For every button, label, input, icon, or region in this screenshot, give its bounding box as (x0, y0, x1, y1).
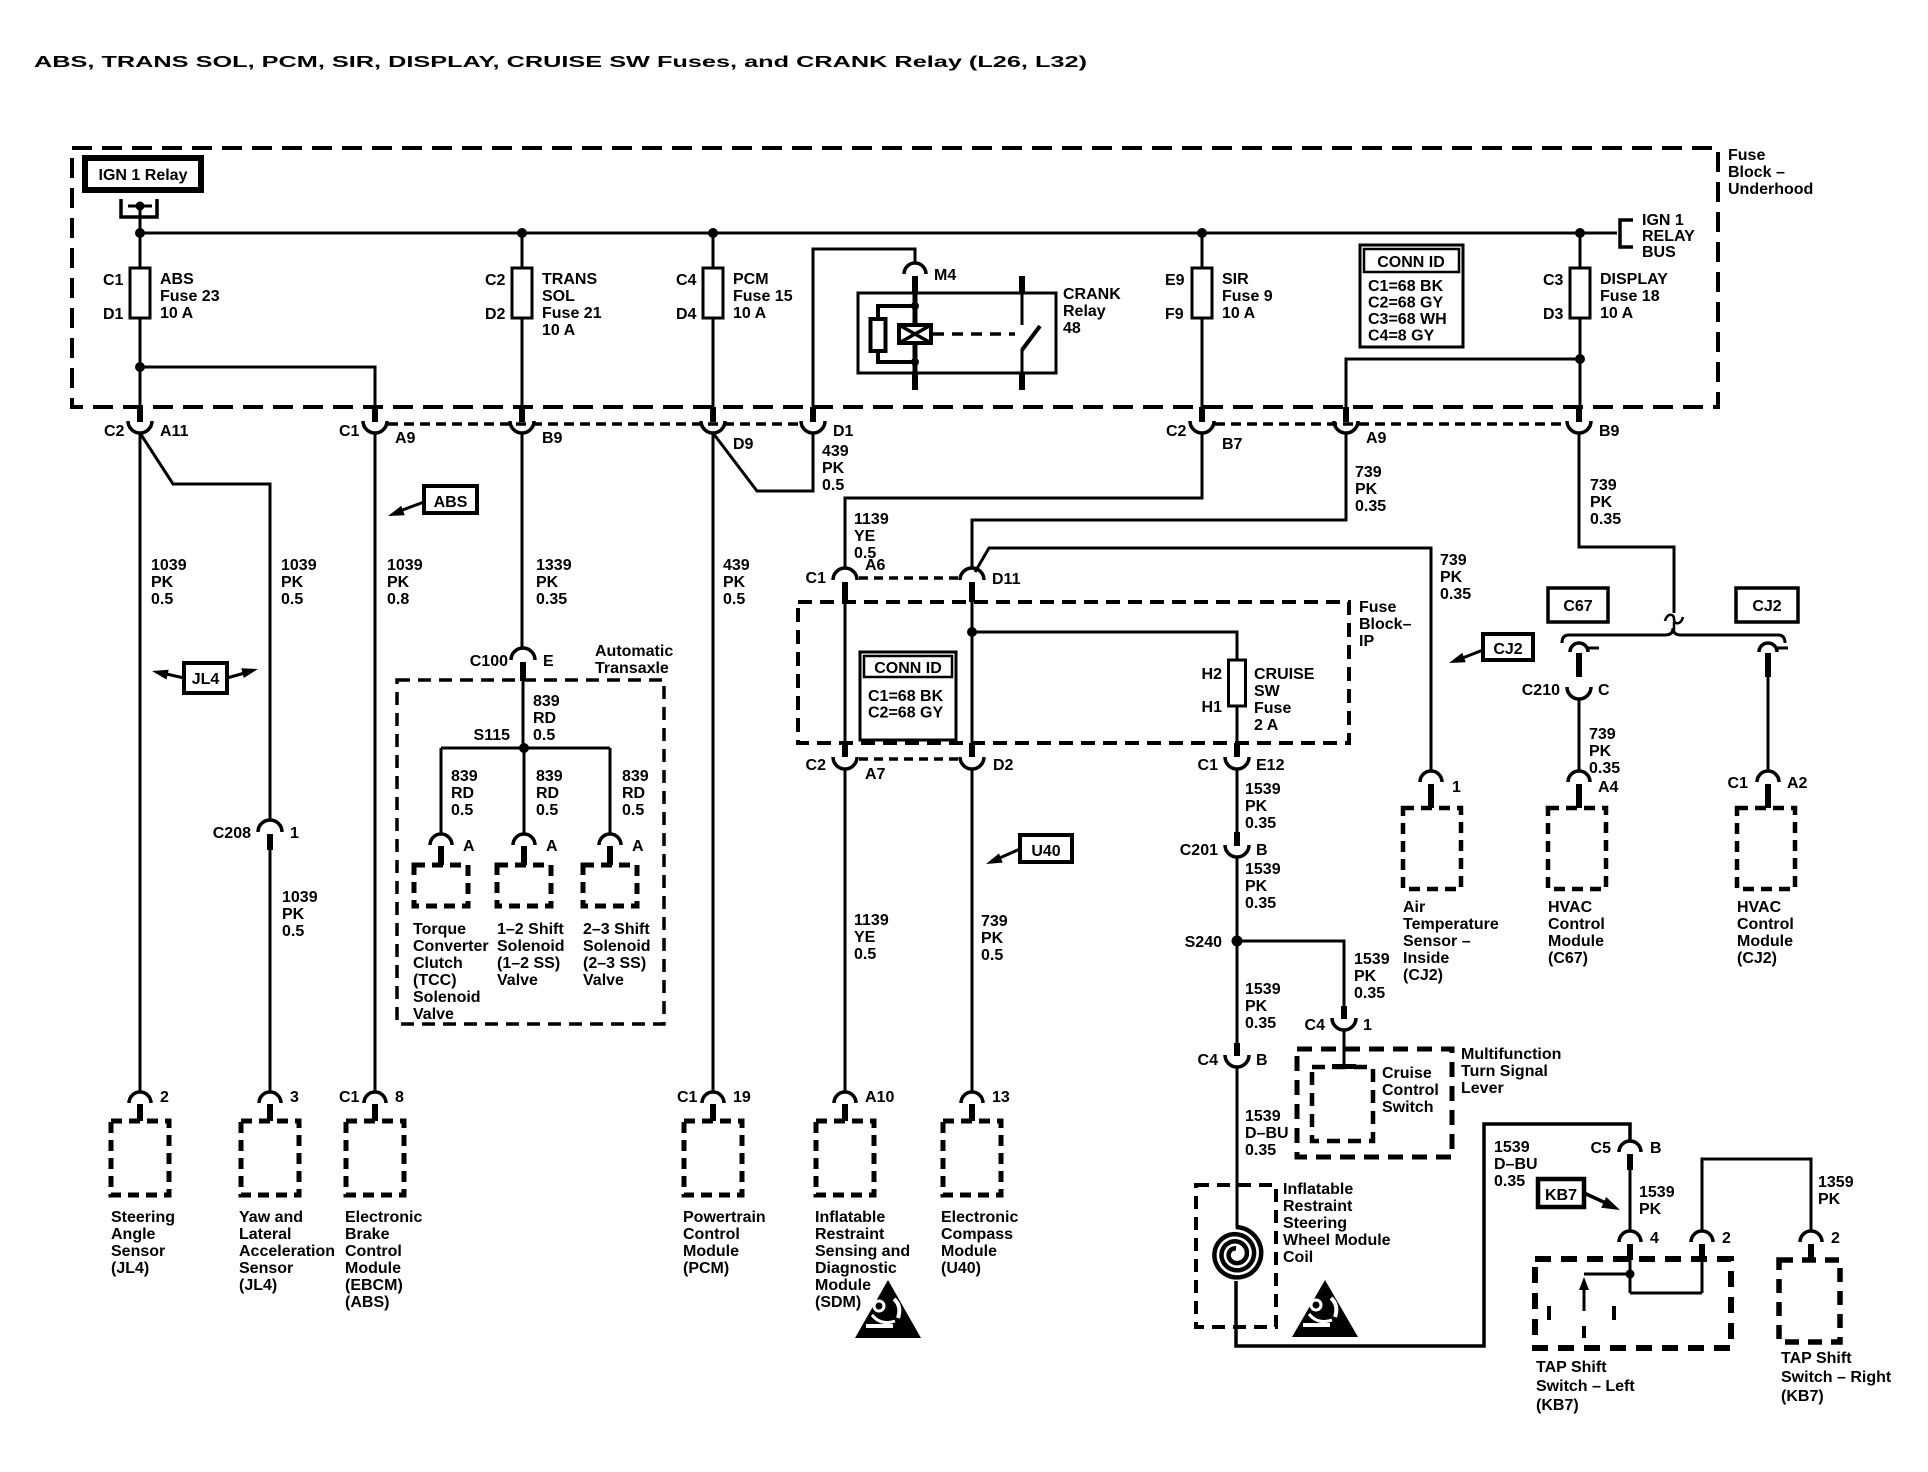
wire A11 branch to C208 (140, 433, 270, 820)
svg-text:Inflatable: Inflatable (815, 1209, 885, 1226)
wire A7 to SDM 1139 YE (844, 769, 847, 1092)
svg-text:(JL4): (JL4) (111, 1260, 149, 1277)
svg-text:S240: S240 (1185, 934, 1222, 951)
connector C4/B inline (1234, 1043, 1240, 1056)
svg-text:0.5: 0.5 (536, 802, 558, 819)
wire PCM fuse output (712, 318, 715, 407)
svg-text:Module: Module (1737, 933, 1793, 950)
svg-text:F9: F9 (1165, 306, 1184, 323)
svg-text:RD: RD (536, 785, 559, 802)
wire bus to fuse PCM (712, 233, 715, 268)
svg-text:D2: D2 (993, 757, 1014, 774)
svg-text:1539: 1539 (1639, 1184, 1675, 1201)
svg-text:C: C (1598, 682, 1610, 699)
connector 3 yaw sensor (269, 0, 272, 2)
bus IGN 1 RELAY BUS (140, 232, 1617, 235)
svg-text:0.35: 0.35 (1245, 815, 1276, 832)
wire S240 branch to cruise control switch (1237, 941, 1344, 1006)
svg-text:(JL4): (JL4) (239, 1277, 277, 1294)
svg-text:A9: A9 (1366, 430, 1387, 447)
relay contact (1019, 276, 1025, 293)
label ABS with arrow (424, 486, 477, 513)
svg-text:Module: Module (683, 1243, 739, 1260)
svg-text:B: B (1650, 1140, 1662, 1157)
svg-text:Control: Control (1382, 1082, 1439, 1099)
connector A of 1&#8211;2 Shift (513, 834, 535, 845)
svg-text:PK: PK (1818, 1191, 1841, 1208)
svg-text:D–BU: D–BU (1494, 1156, 1538, 1173)
svg-text:0.35: 0.35 (1355, 498, 1386, 515)
svg-text:Solenoid: Solenoid (583, 938, 651, 955)
wire A9 to EBCM 1039 PK 0.8 (374, 433, 377, 1092)
coil clockspring spiral (1214, 1227, 1261, 1277)
svg-text:D2: D2 (485, 306, 506, 323)
wire into cruise switch (1343, 1030, 1346, 1064)
svg-text:HVAC: HVAC (1737, 899, 1782, 916)
svg-text:2: 2 (160, 1089, 169, 1106)
svg-text:A11: A11 (160, 423, 189, 440)
svg-text:Air: Air (1403, 899, 1425, 916)
svg-text:YE: YE (854, 528, 876, 545)
connector 4 TAP shift switch left (1619, 1231, 1641, 1242)
svg-text:A2: A2 (1787, 775, 1808, 792)
component Yaw and Lateral Acceleration Sensor (JL4) (241, 1121, 299, 1195)
svg-text:Yaw and: Yaw and (239, 1209, 303, 1226)
connector C100/E (511, 648, 535, 660)
svg-text:(2–3 SS): (2–3 SS) (583, 955, 646, 972)
svg-text:CONN ID: CONN ID (874, 660, 942, 677)
relay coil winding box (913, 291, 918, 325)
bus junction dot at ABS fuse (135, 228, 145, 238)
svg-text:PK: PK (1245, 998, 1268, 1015)
wire B9 right to C67 CJ2 brace (1579, 433, 1674, 613)
svg-text:PK: PK (1440, 569, 1463, 586)
warning triangle SDM (855, 1280, 921, 1338)
svg-text:Diagnostic: Diagnostic (815, 1260, 897, 1277)
connector 2 steering angle sensor (139, 0, 142, 2)
bus junction dot at PCM fuse (708, 228, 718, 238)
svg-text:C1: C1 (339, 1089, 360, 1106)
svg-text:C2: C2 (104, 423, 125, 440)
connector B9 left (519, 407, 525, 422)
svg-text:Switch: Switch (1382, 1099, 1434, 1116)
svg-text:C3=68 WH: C3=68 WH (1368, 311, 1447, 328)
component Inflatable Restraint Steering Wheel Module Coil enclosure (1196, 1185, 1276, 1327)
svg-text:B9: B9 (542, 430, 563, 447)
wire D11 branch to air temperature sensor 739 PK (975, 548, 1431, 771)
wire C5 to TAP left pin 4 1539 PK (1629, 1170, 1632, 1231)
svg-text:0.35: 0.35 (1589, 760, 1620, 777)
IP connector row dashed bottom (859, 757, 958, 761)
svg-text:Sensing and: Sensing and (815, 1243, 910, 1260)
svg-text:2: 2 (1722, 1230, 1731, 1247)
svg-text:0.5: 0.5 (281, 591, 303, 608)
svg-text:Converter: Converter (413, 938, 489, 955)
svg-text:0.5: 0.5 (622, 802, 644, 819)
svg-text:Lever: Lever (1461, 1080, 1504, 1097)
svg-text:13: 13 (992, 1089, 1010, 1106)
svg-text:C1: C1 (677, 1089, 698, 1106)
TAP left internal switch wiring (1629, 1260, 1632, 1293)
svg-text:Fuse 15: Fuse 15 (733, 288, 793, 305)
svg-text:0.5: 0.5 (451, 802, 473, 819)
svg-text:C1: C1 (339, 423, 360, 440)
svg-text:10 A: 10 A (733, 305, 767, 322)
svg-text:739: 739 (1440, 552, 1467, 569)
component Electronic Brake Control Module (EBCM) (ABS) (346, 1121, 404, 1195)
svg-text:Valve: Valve (497, 972, 538, 989)
svg-text:PK: PK (536, 574, 559, 591)
svg-text:D1: D1 (833, 423, 854, 440)
svg-text:1539: 1539 (1354, 951, 1390, 968)
connector pin under brace right (1759, 643, 1777, 652)
svg-text:(CJ2): (CJ2) (1403, 967, 1443, 984)
svg-text:Underhood: Underhood (1728, 181, 1813, 198)
wire C100 to S115 839 RD (522, 681, 525, 748)
connector C208/1 inline (258, 820, 282, 832)
wire B9 to C100 1339 PK (521, 433, 524, 649)
svg-text:PK: PK (282, 906, 305, 923)
svg-text:KB7: KB7 (1545, 1187, 1577, 1204)
bus junction dot at TRANS SOL fuse (517, 228, 527, 238)
svg-text:1: 1 (1452, 779, 1461, 796)
svg-text:SIR: SIR (1222, 271, 1249, 288)
wire C208 to yaw sensor (269, 850, 272, 1092)
connector C1/A2 HVAC CJ2 (1757, 771, 1779, 782)
wire branch DISPLAY to A9 right (1346, 359, 1580, 407)
svg-text:B7: B7 (1222, 436, 1243, 453)
svg-text:Switch – Left: Switch – Left (1536, 1378, 1635, 1395)
svg-text:Fuse: Fuse (1254, 700, 1291, 717)
svg-text:C2: C2 (485, 272, 506, 289)
svg-text:E12: E12 (1256, 757, 1285, 774)
component Inflatable Restraint SDM (816, 1121, 874, 1195)
svg-text:A10: A10 (865, 1089, 894, 1106)
relay CRANK Relay 48 box (858, 293, 1056, 373)
connector B9 right (1576, 407, 1582, 422)
svg-text:Control: Control (683, 1226, 740, 1243)
bus junction dot at SIR fuse (1197, 228, 1207, 238)
wire IGN1 relay to bus (139, 206, 142, 233)
svg-text:Transaxle: Transaxle (595, 660, 669, 677)
svg-text:ABS: ABS (434, 494, 468, 511)
svg-text:(ABS): (ABS) (345, 1294, 389, 1311)
connector C5/B inline (1619, 1141, 1641, 1152)
svg-text:0.35: 0.35 (1245, 895, 1276, 912)
svg-text:439: 439 (822, 443, 849, 460)
fuse ABS Fuse 23 10 A (130, 268, 150, 318)
svg-text:0.5: 0.5 (981, 947, 1003, 964)
svg-text:D9: D9 (733, 436, 754, 453)
svg-text:1039: 1039 (151, 557, 187, 574)
svg-text:PK: PK (151, 574, 174, 591)
svg-text:C1: C1 (806, 570, 827, 587)
svg-text:2: 2 (1831, 1230, 1840, 1247)
svg-text:C2=68 GY: C2=68 GY (868, 705, 943, 722)
wire D9 to D1 jumper 439 PK (713, 433, 813, 491)
svg-text:Acceleration: Acceleration (239, 1243, 335, 1260)
svg-text:1: 1 (290, 825, 299, 842)
svg-text:0.5: 0.5 (822, 477, 844, 494)
component Electronic Compass Module (U40) (943, 1121, 1001, 1195)
wire SIR fuse output (1201, 318, 1204, 407)
svg-text:Angle: Angle (111, 1226, 156, 1243)
svg-text:Block–: Block– (1359, 616, 1412, 633)
label box CJ2 right (1736, 588, 1798, 622)
svg-text:SOL: SOL (542, 288, 575, 305)
svg-text:739: 739 (1355, 464, 1382, 481)
svg-text:PK: PK (1245, 878, 1268, 895)
svg-text:Module: Module (815, 1277, 871, 1294)
wire S240 to C4/B 1539 PK (1236, 941, 1239, 1043)
svg-text:C67: C67 (1563, 598, 1592, 615)
fuse PCM Fuse 15 10 A (703, 268, 723, 318)
svg-text:BUS: BUS (1642, 244, 1676, 261)
component 1&#8211;2 Shift Solenoid (1&#8211;2 SS) Valve (497, 865, 551, 906)
IGN 1 Relay label box (85, 158, 201, 190)
svg-text:Control: Control (1737, 916, 1794, 933)
component 2&#8211;3 Shift Solenoid (2&#8211;3 SS) Valve (583, 865, 637, 906)
relay coil junction bottom (911, 358, 919, 366)
svg-text:0.35: 0.35 (536, 591, 567, 608)
svg-text:48: 48 (1063, 320, 1081, 337)
svg-text:A7: A7 (865, 766, 886, 783)
svg-text:1039: 1039 (282, 889, 318, 906)
svg-text:10 A: 10 A (542, 322, 576, 339)
connector D9 (710, 407, 716, 422)
svg-text:Relay: Relay (1063, 303, 1106, 320)
fuse CRUISE SW Fuse 2 A (1229, 660, 1246, 706)
svg-text:Sensor: Sensor (239, 1260, 293, 1277)
connector A4 HVAC C67 (1568, 771, 1590, 782)
wire bus to fuse ABS (139, 233, 142, 268)
svg-text:Fuse 9: Fuse 9 (1222, 288, 1273, 305)
svg-text:Control: Control (1548, 916, 1605, 933)
automatic transaxle dashed enclosure (397, 680, 664, 1024)
svg-text:C208: C208 (213, 825, 251, 842)
svg-text:Switch – Right: Switch – Right (1781, 1369, 1892, 1386)
fuse SIR Fuse 9 10 A (1192, 268, 1212, 318)
svg-text:Automatic: Automatic (595, 643, 673, 660)
svg-text:(C67): (C67) (1548, 950, 1588, 967)
label U40 with arrow (1020, 835, 1072, 862)
connector D2 (969, 743, 975, 757)
connector brace C67 CJ2 split (1562, 628, 1785, 643)
svg-text:(TCC): (TCC) (413, 972, 457, 989)
svg-text:PCM: PCM (733, 271, 769, 288)
svg-text:(U40): (U40) (941, 1260, 981, 1277)
svg-text:C4: C4 (1305, 1017, 1326, 1034)
junction dot D11 branch to cruise fuse (967, 627, 977, 637)
svg-text:RD: RD (622, 785, 645, 802)
svg-text:C1=68 BK: C1=68 BK (868, 688, 944, 705)
fuse block underhood dashed enclosure (72, 148, 1718, 407)
connector A of 2&#8211;3 Shift (599, 834, 621, 845)
label JL4 with arrows (184, 663, 227, 693)
svg-text:Block –: Block – (1728, 164, 1785, 181)
wire A6 to A7 inside IP (844, 602, 847, 743)
wire TAP left pin 2 to TAP right pin 2 1359 PK (1702, 1159, 1811, 1230)
svg-text:RD: RD (533, 710, 556, 727)
connector 1 air temperature sensor (1420, 771, 1442, 782)
svg-text:Solenoid: Solenoid (497, 938, 565, 955)
connector C1/8 EBCM (374, 0, 377, 2)
wire C201 to S240 (1236, 857, 1239, 941)
relay coil junction top (911, 302, 919, 310)
IP connector row dashed top (859, 576, 958, 580)
connector C2/B7 (1199, 407, 1205, 422)
wire branch to A9 (140, 367, 375, 407)
svg-text:4: 4 (1650, 1230, 1659, 1247)
svg-text:Steering: Steering (1283, 1215, 1347, 1232)
svg-text:TAP Shift: TAP Shift (1536, 1359, 1607, 1376)
svg-text:HVAC: HVAC (1548, 899, 1593, 916)
svg-text:839: 839 (451, 768, 478, 785)
svg-text:1139: 1139 (854, 511, 889, 528)
wire coil to C5 1539 D-BU (1236, 1124, 1630, 1346)
svg-text:1539: 1539 (1245, 1108, 1281, 1125)
svg-text:H1: H1 (1202, 699, 1223, 716)
svg-text:PK: PK (281, 574, 304, 591)
svg-text:TAP Shift: TAP Shift (1781, 1350, 1852, 1367)
warning triangle coil (1292, 1280, 1358, 1337)
svg-text:Electronic: Electronic (941, 1209, 1018, 1226)
svg-text:RELAY: RELAY (1642, 228, 1695, 245)
svg-text:Coil: Coil (1283, 1249, 1313, 1266)
wire DISPLAY fuse output (1579, 318, 1582, 407)
svg-text:19: 19 (733, 1089, 751, 1106)
connector 13 compass (971, 0, 974, 2)
svg-text:2–3 Shift: 2–3 Shift (583, 921, 650, 938)
connector M4 (904, 263, 926, 274)
svg-text:Cruise: Cruise (1382, 1065, 1432, 1082)
svg-text:Fuse: Fuse (1359, 599, 1396, 616)
wire TRANS SOL fuse output (521, 318, 524, 407)
connector A of Torque (430, 834, 452, 845)
svg-text:IGN 1 Relay: IGN 1 Relay (99, 167, 188, 184)
wire M4 to D1 (813, 249, 915, 407)
svg-text:PK: PK (387, 574, 410, 591)
wire to CRUISE SW fuse (972, 632, 1237, 660)
svg-text:Restraint: Restraint (1283, 1198, 1353, 1215)
svg-text:PK: PK (1590, 494, 1613, 511)
svg-text:0.35: 0.35 (1354, 985, 1385, 1002)
label KB7 with arrow (1538, 1179, 1584, 1207)
component Multifunction Turn Signal Lever enclosure (1297, 1049, 1452, 1157)
svg-text:CONN ID: CONN ID (1377, 254, 1445, 271)
svg-text:Powertrain: Powertrain (683, 1209, 766, 1226)
svg-text:739: 739 (1589, 726, 1616, 743)
wire S115 distribution (441, 747, 610, 750)
svg-text:D1: D1 (103, 306, 124, 323)
svg-text:1339: 1339 (536, 557, 572, 574)
connector C2/A7 (842, 743, 848, 757)
component Powertrain Control Module (PCM) (684, 1121, 742, 1195)
svg-text:Temperature: Temperature (1403, 916, 1499, 933)
bus junction dot at DISPLAY fuse (1575, 228, 1585, 238)
svg-text:Fuse 23: Fuse 23 (160, 288, 220, 305)
connector row dashed line left (388, 422, 801, 426)
svg-text:SW: SW (1254, 683, 1281, 700)
svg-text:A6: A6 (865, 557, 886, 574)
svg-text:A9: A9 (395, 430, 416, 447)
svg-text:(KB7): (KB7) (1536, 1397, 1579, 1414)
svg-text:CRANK: CRANK (1063, 286, 1121, 303)
svg-text:Turn Signal: Turn Signal (1461, 1063, 1548, 1080)
component Cruise Control Switch box (1312, 1067, 1373, 1141)
svg-text:PK: PK (1354, 968, 1377, 985)
svg-text:Fuse: Fuse (1728, 147, 1765, 164)
svg-text:Module: Module (941, 1243, 997, 1260)
svg-text:ABS, TRANS SOL, PCM, SIR, DISP: ABS, TRANS SOL, PCM, SIR, DISPLAY, CRUIS… (34, 54, 1087, 71)
svg-text:C4: C4 (1198, 1052, 1219, 1069)
svg-text:Steering: Steering (111, 1209, 175, 1226)
svg-text:1139: 1139 (854, 912, 889, 929)
wire D2 to compass 739 PK (971, 769, 974, 1092)
svg-text:Sensor –: Sensor – (1403, 933, 1471, 950)
svg-text:Multifunction: Multifunction (1461, 1046, 1561, 1063)
svg-text:0.5: 0.5 (533, 727, 555, 744)
svg-text:TRANS: TRANS (542, 271, 597, 288)
svg-text:Compass: Compass (941, 1226, 1013, 1243)
connector pin under brace left (1570, 643, 1588, 652)
svg-text:839: 839 (533, 693, 560, 710)
svg-text:C2: C2 (806, 757, 827, 774)
svg-text:1039: 1039 (387, 557, 423, 574)
svg-text:ABS: ABS (160, 271, 194, 288)
svg-text:1539: 1539 (1494, 1139, 1530, 1156)
svg-text:0.5: 0.5 (282, 923, 304, 940)
component Air Temperature Sensor Inside (CJ2) (1403, 808, 1461, 889)
svg-text:D4: D4 (676, 306, 697, 323)
svg-text:0.35: 0.35 (1590, 511, 1621, 528)
wire B7 to A6 1139 YE (845, 433, 1202, 569)
component TAP Shift Switch Left enclosure (1535, 1259, 1731, 1348)
svg-text:A: A (546, 838, 558, 855)
svg-text:Torque: Torque (413, 921, 466, 938)
svg-text:1359: 1359 (1818, 1174, 1854, 1191)
svg-text:A: A (632, 838, 644, 855)
svg-text:D3: D3 (1543, 306, 1564, 323)
svg-text:YE: YE (854, 929, 876, 946)
svg-text:B: B (1256, 1052, 1268, 1069)
svg-text:Electronic: Electronic (345, 1209, 422, 1226)
svg-text:C1: C1 (1728, 775, 1749, 792)
IGN 1 RELAY BUS continuation bracket (1620, 220, 1633, 247)
svg-text:(CJ2): (CJ2) (1737, 950, 1777, 967)
svg-text:739: 739 (1590, 477, 1617, 494)
svg-text:Fuse 18: Fuse 18 (1600, 288, 1660, 305)
svg-text:C100: C100 (470, 653, 508, 670)
svg-text:Wheel Module: Wheel Module (1283, 1232, 1391, 1249)
svg-text:E9: E9 (1165, 272, 1185, 289)
svg-text:H2: H2 (1202, 666, 1223, 683)
fuse DISPLAY Fuse 18 10 A (1570, 268, 1590, 318)
svg-text:C5: C5 (1591, 1140, 1612, 1157)
svg-text:(SDM): (SDM) (815, 1294, 861, 1311)
svg-text:D11: D11 (992, 571, 1021, 588)
CONN ID table IP (860, 652, 956, 740)
svg-text:10 A: 10 A (1222, 305, 1256, 322)
svg-text:1: 1 (1363, 1017, 1372, 1034)
svg-text:C2=68 GY: C2=68 GY (1368, 295, 1443, 312)
component Torque Converter Clutch (TCC) Solenoid Valve (414, 865, 468, 906)
svg-text:0.8: 0.8 (387, 591, 409, 608)
connector A10 SDM (844, 0, 847, 2)
connector row dashed line right (1215, 422, 1567, 426)
splice S240 (1232, 936, 1243, 947)
svg-text:C4=8 GY: C4=8 GY (1368, 328, 1435, 345)
